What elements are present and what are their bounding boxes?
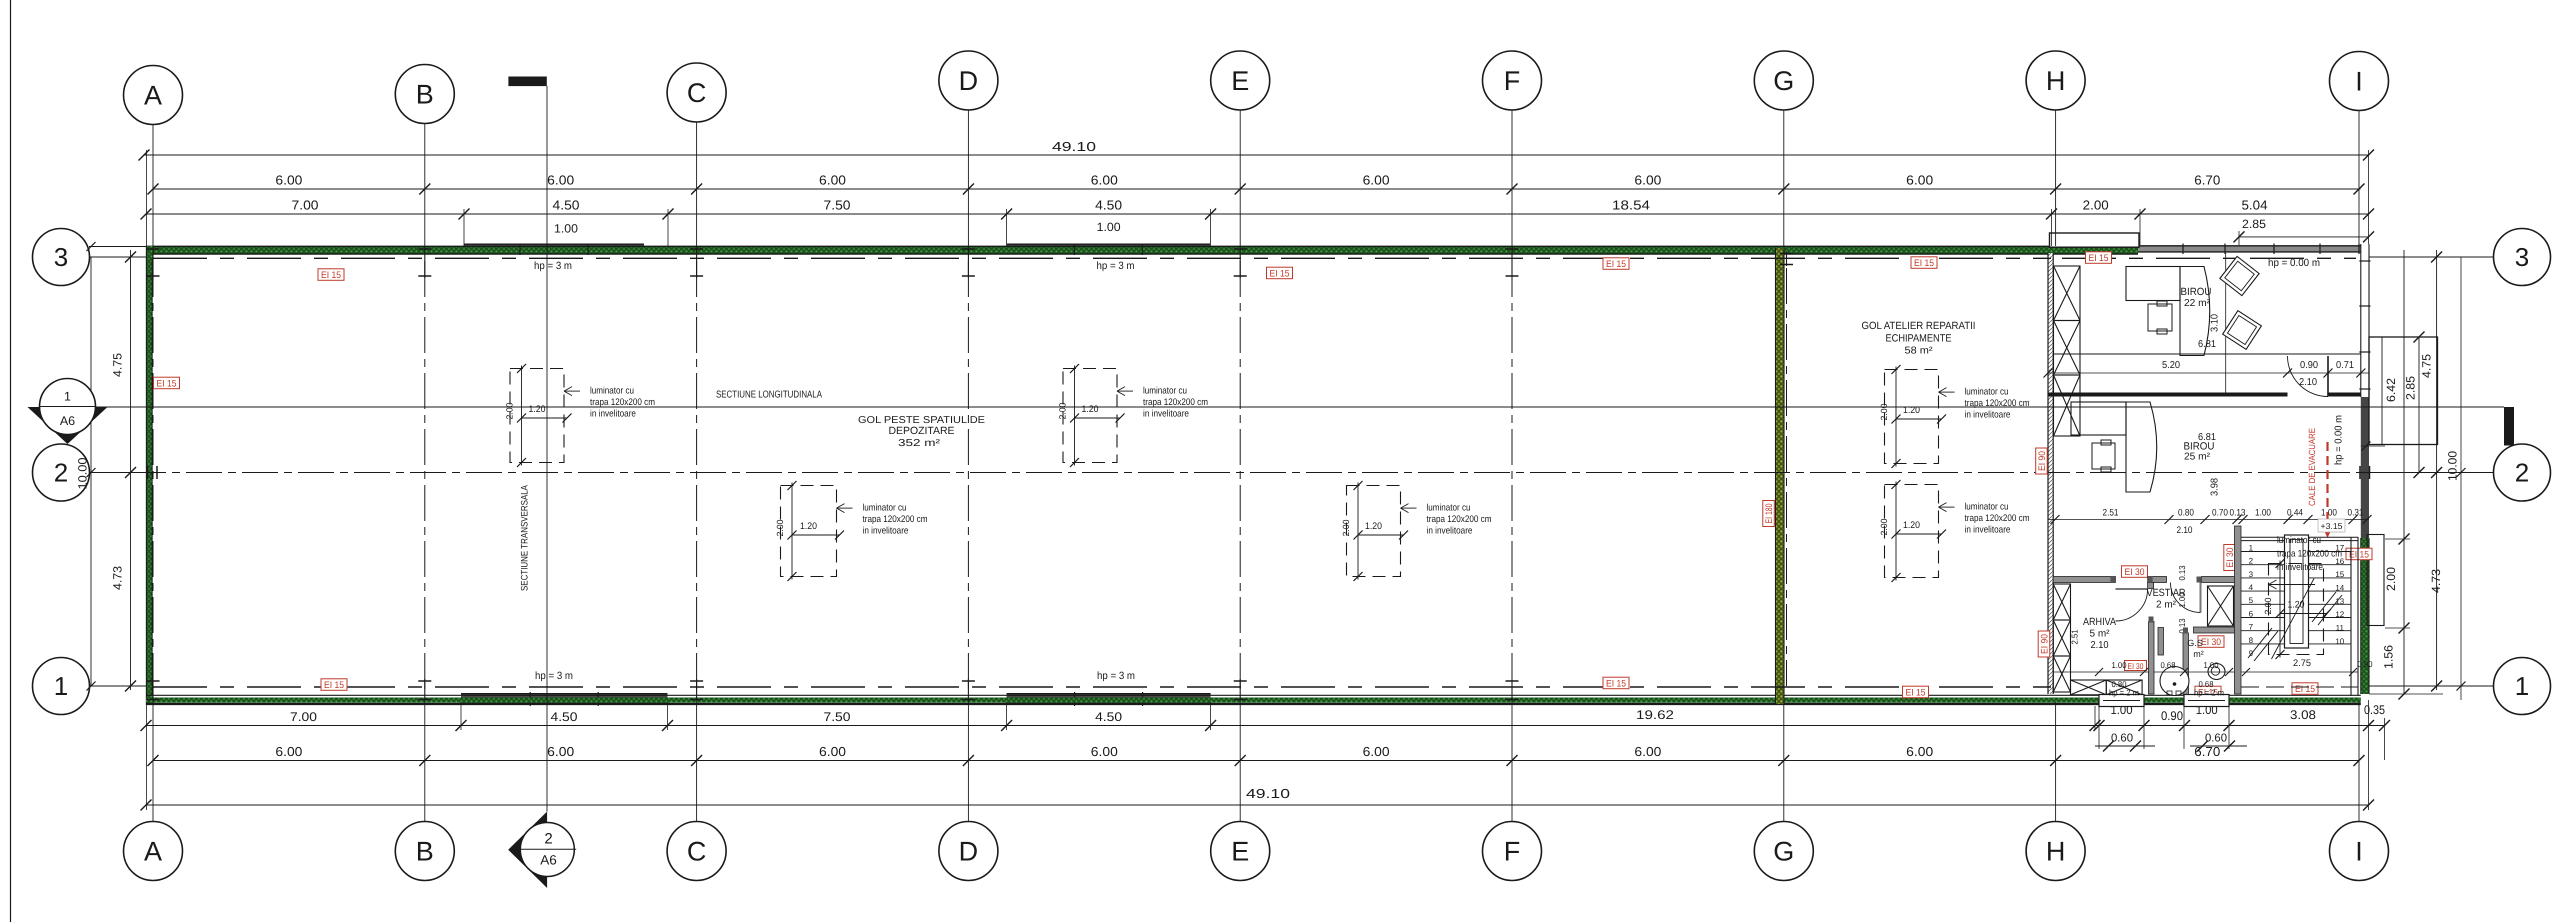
- svg-text:49.10: 49.10: [1246, 786, 1290, 801]
- svg-text:B: B: [416, 837, 434, 867]
- svg-text:7.50: 7.50: [824, 710, 851, 724]
- svg-text:6: 6: [2249, 609, 2254, 618]
- svg-text:in invelitoare: in invelitoare: [1143, 409, 1189, 420]
- svg-text:2.00: 2.00: [2263, 598, 2273, 615]
- svg-text:hp = 0.00 m: hp = 0.00 m: [2268, 257, 2320, 269]
- svg-text:4.73: 4.73: [2429, 569, 2443, 593]
- svg-text:2.10: 2.10: [2177, 525, 2193, 536]
- svg-text:8: 8: [2249, 636, 2254, 645]
- svg-text:2 m²: 2 m²: [2156, 600, 2177, 611]
- svg-text:2.00: 2.00: [505, 403, 515, 420]
- svg-text:C: C: [687, 837, 707, 867]
- svg-text:0.71: 0.71: [2336, 360, 2354, 371]
- svg-text:0.90: 0.90: [2358, 659, 2373, 669]
- svg-text:EI 15: EI 15: [321, 270, 341, 281]
- svg-text:1.00: 1.00: [554, 222, 578, 236]
- svg-text:luminator cu: luminator cu: [2277, 535, 2321, 546]
- svg-text:A6: A6: [60, 414, 75, 428]
- svg-text:4.75: 4.75: [111, 353, 125, 377]
- svg-text:3.10: 3.10: [2210, 314, 2221, 332]
- svg-text:trapa 120x200 cm: trapa 120x200 cm: [1965, 398, 2030, 409]
- svg-text:0.60: 0.60: [2111, 733, 2133, 745]
- svg-text:EI 180: EI 180: [1764, 504, 1775, 524]
- svg-text:0.35: 0.35: [2364, 703, 2385, 717]
- svg-text:EI 15: EI 15: [2295, 684, 2315, 695]
- svg-text:7.00: 7.00: [292, 198, 319, 213]
- svg-text:7.50: 7.50: [824, 198, 851, 213]
- svg-text:trapa 120x200 cm: trapa 120x200 cm: [863, 514, 928, 525]
- svg-text:hp = 2 m: hp = 2 m: [2194, 688, 2224, 698]
- svg-text:15: 15: [2335, 570, 2344, 579]
- svg-text:hp = 3 m: hp = 3 m: [534, 260, 572, 272]
- svg-text:E: E: [1231, 66, 1249, 96]
- svg-text:6.00: 6.00: [819, 173, 846, 188]
- svg-text:DEPOZITARE: DEPOZITARE: [889, 425, 955, 437]
- svg-text:2.00: 2.00: [2384, 567, 2398, 591]
- svg-text:2.00: 2.00: [775, 520, 785, 537]
- svg-text:1.20: 1.20: [2288, 600, 2305, 611]
- svg-text:F: F: [1504, 66, 1521, 96]
- svg-text:19.62: 19.62: [1636, 708, 1674, 722]
- svg-text:10.00: 10.00: [76, 457, 90, 489]
- svg-text:in invelitoare: in invelitoare: [2277, 562, 2323, 573]
- svg-text:6.00: 6.00: [1363, 173, 1390, 188]
- svg-text:1.20: 1.20: [800, 521, 817, 532]
- svg-text:trapa 120x200 cm: trapa 120x200 cm: [1427, 514, 1492, 525]
- svg-text:EI 30: EI 30: [2128, 661, 2144, 671]
- svg-text:4.50: 4.50: [1095, 198, 1122, 213]
- svg-text:SECTIUNE LONGITUDINALA: SECTIUNE LONGITUDINALA: [716, 389, 822, 400]
- svg-text:m²: m²: [2193, 649, 2204, 659]
- svg-text:25 m²: 25 m²: [2184, 452, 2211, 463]
- svg-text:EI 15: EI 15: [157, 379, 177, 390]
- svg-text:2.10: 2.10: [2091, 640, 2109, 651]
- svg-text:2.00: 2.00: [1879, 404, 1889, 421]
- svg-text:2.00: 2.00: [1058, 403, 1068, 420]
- svg-text:GOL ATELIER REPARATII: GOL ATELIER REPARATII: [1862, 320, 1976, 332]
- svg-text:6.70: 6.70: [2194, 173, 2220, 188]
- svg-text:6.00: 6.00: [547, 173, 574, 188]
- svg-text:I: I: [2355, 837, 2363, 867]
- svg-text:4.75: 4.75: [2420, 354, 2434, 378]
- svg-text:EI 15: EI 15: [2349, 550, 2369, 561]
- svg-text:SECTIUNE TRANSVERSALA: SECTIUNE TRANSVERSALA: [520, 484, 531, 591]
- svg-text:EI 15: EI 15: [1270, 269, 1290, 280]
- svg-text:4.50: 4.50: [1095, 710, 1122, 724]
- svg-text:3: 3: [54, 242, 68, 272]
- svg-text:6.00: 6.00: [1634, 744, 1661, 759]
- svg-text:1.20: 1.20: [1903, 520, 1920, 531]
- svg-text:I: I: [2355, 67, 2363, 97]
- svg-text:hp = 3 m: hp = 3 m: [1097, 670, 1135, 682]
- svg-text:C: C: [687, 78, 707, 108]
- svg-text:D: D: [959, 837, 979, 867]
- svg-text:in invelitoare: in invelitoare: [1965, 525, 2011, 536]
- svg-text:2: 2: [54, 458, 68, 488]
- svg-text:1.00: 1.00: [2321, 508, 2337, 519]
- svg-text:luminator cu: luminator cu: [1143, 386, 1187, 397]
- svg-text:EI 15: EI 15: [1914, 258, 1934, 269]
- svg-text:hp = 3 m: hp = 3 m: [1097, 260, 1135, 272]
- svg-text:3.08: 3.08: [2290, 708, 2316, 722]
- svg-text:0.90: 0.90: [2161, 709, 2183, 723]
- svg-text:10: 10: [2335, 637, 2344, 646]
- svg-text:2.00: 2.00: [1341, 520, 1351, 537]
- svg-text:0.31: 0.31: [2348, 508, 2364, 519]
- svg-text:0.68: 0.68: [2161, 660, 2176, 670]
- svg-text:12: 12: [2335, 610, 2344, 619]
- svg-text:3.98: 3.98: [2210, 478, 2221, 496]
- svg-text:6.42: 6.42: [2384, 378, 2398, 402]
- svg-text:EI 15: EI 15: [1606, 259, 1626, 270]
- svg-text:0.44: 0.44: [2287, 508, 2303, 519]
- svg-text:EI 15: EI 15: [1906, 688, 1926, 699]
- svg-text:6.00: 6.00: [547, 744, 574, 759]
- svg-text:H: H: [2046, 837, 2066, 867]
- svg-text:352 m²: 352 m²: [898, 438, 941, 449]
- svg-text:2.75: 2.75: [2293, 658, 2311, 669]
- svg-text:1: 1: [64, 390, 71, 404]
- svg-text:11: 11: [2336, 624, 2345, 633]
- svg-text:H: H: [2046, 66, 2066, 96]
- svg-text:6.00: 6.00: [275, 173, 302, 188]
- svg-text:2.00: 2.00: [1879, 519, 1889, 536]
- svg-text:BIROU: BIROU: [2181, 286, 2212, 298]
- svg-text:22 m²: 22 m²: [2184, 298, 2211, 309]
- svg-text:6.00: 6.00: [1091, 744, 1118, 759]
- svg-text:6.81: 6.81: [2198, 339, 2216, 350]
- svg-text:3: 3: [2249, 570, 2254, 579]
- svg-text:ECHIPAMENTE: ECHIPAMENTE: [1886, 333, 1952, 345]
- svg-text:1.20: 1.20: [1082, 404, 1099, 415]
- svg-text:4.73: 4.73: [111, 566, 125, 590]
- svg-text:F: F: [1504, 837, 1521, 867]
- svg-text:0.60: 0.60: [2205, 733, 2227, 745]
- svg-text:0.70: 0.70: [2212, 508, 2228, 519]
- svg-text:A6: A6: [540, 853, 557, 868]
- svg-text:4: 4: [2249, 583, 2254, 592]
- svg-text:hp = 3 m: hp = 3 m: [535, 670, 573, 682]
- svg-text:2.10: 2.10: [2299, 377, 2317, 388]
- svg-text:1.00: 1.00: [2177, 592, 2187, 607]
- svg-text:EI 15: EI 15: [324, 680, 344, 691]
- svg-text:1.20: 1.20: [1903, 405, 1920, 416]
- svg-text:2: 2: [2249, 557, 2254, 566]
- svg-text:0.80: 0.80: [2178, 508, 2194, 519]
- svg-text:1: 1: [2249, 543, 2254, 552]
- svg-text:trapa 120x200 cm: trapa 120x200 cm: [1143, 397, 1208, 408]
- svg-text:EI 30: EI 30: [2125, 567, 2145, 578]
- svg-text:trapa 120x200 cm: trapa 120x200 cm: [590, 397, 655, 408]
- svg-text:2.00: 2.00: [2083, 198, 2109, 213]
- svg-text:6.00: 6.00: [1906, 173, 1933, 188]
- svg-text:1.20: 1.20: [529, 404, 546, 415]
- svg-text:4.50: 4.50: [553, 198, 580, 213]
- svg-text:+3.15: +3.15: [2321, 521, 2343, 531]
- svg-text:6.00: 6.00: [1634, 173, 1661, 188]
- svg-text:7: 7: [2249, 623, 2254, 632]
- svg-text:G: G: [1773, 66, 1794, 96]
- svg-text:trapa 120x200 cm: trapa 120x200 cm: [1965, 513, 2030, 524]
- svg-text:3: 3: [2515, 242, 2529, 272]
- svg-text:6.00: 6.00: [1091, 173, 1118, 188]
- svg-text:EI 15: EI 15: [2089, 253, 2109, 264]
- svg-text:2.85: 2.85: [2242, 217, 2266, 231]
- svg-text:1: 1: [2515, 671, 2529, 701]
- svg-text:EI 90: EI 90: [2037, 451, 2048, 471]
- svg-text:2.51: 2.51: [2070, 629, 2080, 644]
- svg-text:EI 30: EI 30: [2201, 637, 2221, 648]
- svg-text:G: G: [1773, 837, 1794, 867]
- svg-text:5: 5: [2249, 596, 2254, 605]
- svg-text:G.S: G.S: [2187, 638, 2203, 648]
- svg-text:in invelitoare: in invelitoare: [1965, 410, 2011, 421]
- svg-text:trapa 120x200 cm: trapa 120x200 cm: [2277, 549, 2342, 560]
- svg-text:luminator cu: luminator cu: [1965, 502, 2009, 513]
- svg-text:0.90: 0.90: [2300, 360, 2318, 371]
- svg-text:49.10: 49.10: [1052, 139, 1096, 154]
- svg-text:58 m²: 58 m²: [1905, 346, 1934, 357]
- svg-text:6.00: 6.00: [1363, 744, 1390, 759]
- svg-text:18.54: 18.54: [1612, 198, 1650, 213]
- svg-text:6.00: 6.00: [819, 744, 846, 759]
- svg-text:in invelitoare: in invelitoare: [1427, 526, 1473, 537]
- svg-text:A: A: [144, 837, 162, 867]
- svg-text:5.20: 5.20: [2162, 360, 2180, 371]
- svg-text:2.85: 2.85: [2404, 376, 2418, 400]
- svg-text:6.00: 6.00: [275, 744, 302, 759]
- svg-text:luminator cu: luminator cu: [1965, 387, 2009, 398]
- svg-text:ARHIVA: ARHIVA: [2083, 616, 2116, 628]
- svg-text:hp = 0.00 m: hp = 0.00 m: [2334, 415, 2345, 465]
- svg-text:1.00: 1.00: [1097, 220, 1121, 234]
- svg-text:0.13: 0.13: [2177, 565, 2187, 580]
- svg-text:5.04: 5.04: [2242, 198, 2268, 213]
- svg-text:1.56: 1.56: [2382, 645, 2396, 669]
- svg-text:EI 15: EI 15: [1606, 679, 1626, 690]
- svg-text:luminator cu: luminator cu: [863, 503, 907, 514]
- svg-text:EI 90: EI 90: [2040, 634, 2051, 654]
- svg-text:14: 14: [2335, 583, 2344, 592]
- svg-text:6.00: 6.00: [1906, 744, 1933, 759]
- svg-text:4.50: 4.50: [551, 710, 578, 724]
- svg-text:luminator cu: luminator cu: [590, 386, 634, 397]
- svg-text:0.13: 0.13: [2230, 508, 2246, 519]
- svg-text:10.00: 10.00: [2446, 451, 2460, 481]
- svg-text:D: D: [959, 66, 979, 96]
- svg-text:A: A: [144, 81, 162, 111]
- svg-text:1.20: 1.20: [1365, 521, 1382, 532]
- svg-text:2: 2: [544, 831, 552, 848]
- svg-text:E: E: [1231, 837, 1249, 867]
- svg-text:luminator cu: luminator cu: [1427, 503, 1471, 514]
- svg-text:7.00: 7.00: [290, 710, 317, 724]
- svg-text:in invelitoare: in invelitoare: [590, 409, 636, 420]
- svg-text:B: B: [416, 80, 434, 110]
- svg-text:6.70: 6.70: [2194, 744, 2220, 759]
- svg-text:2.51: 2.51: [2103, 508, 2119, 519]
- svg-text:1.00: 1.00: [2112, 660, 2127, 670]
- svg-text:1: 1: [54, 671, 68, 701]
- svg-text:2: 2: [2515, 458, 2529, 488]
- svg-text:in invelitoare: in invelitoare: [863, 526, 909, 537]
- svg-text:hp = 2 m: hp = 2 m: [2109, 688, 2139, 698]
- svg-text:5 m²: 5 m²: [2090, 629, 2111, 640]
- svg-text:1.00: 1.00: [2255, 508, 2271, 519]
- svg-text:1.00: 1.00: [2204, 660, 2219, 670]
- svg-text:CALE DE EVACUARE: CALE DE EVACUARE: [2307, 428, 2317, 506]
